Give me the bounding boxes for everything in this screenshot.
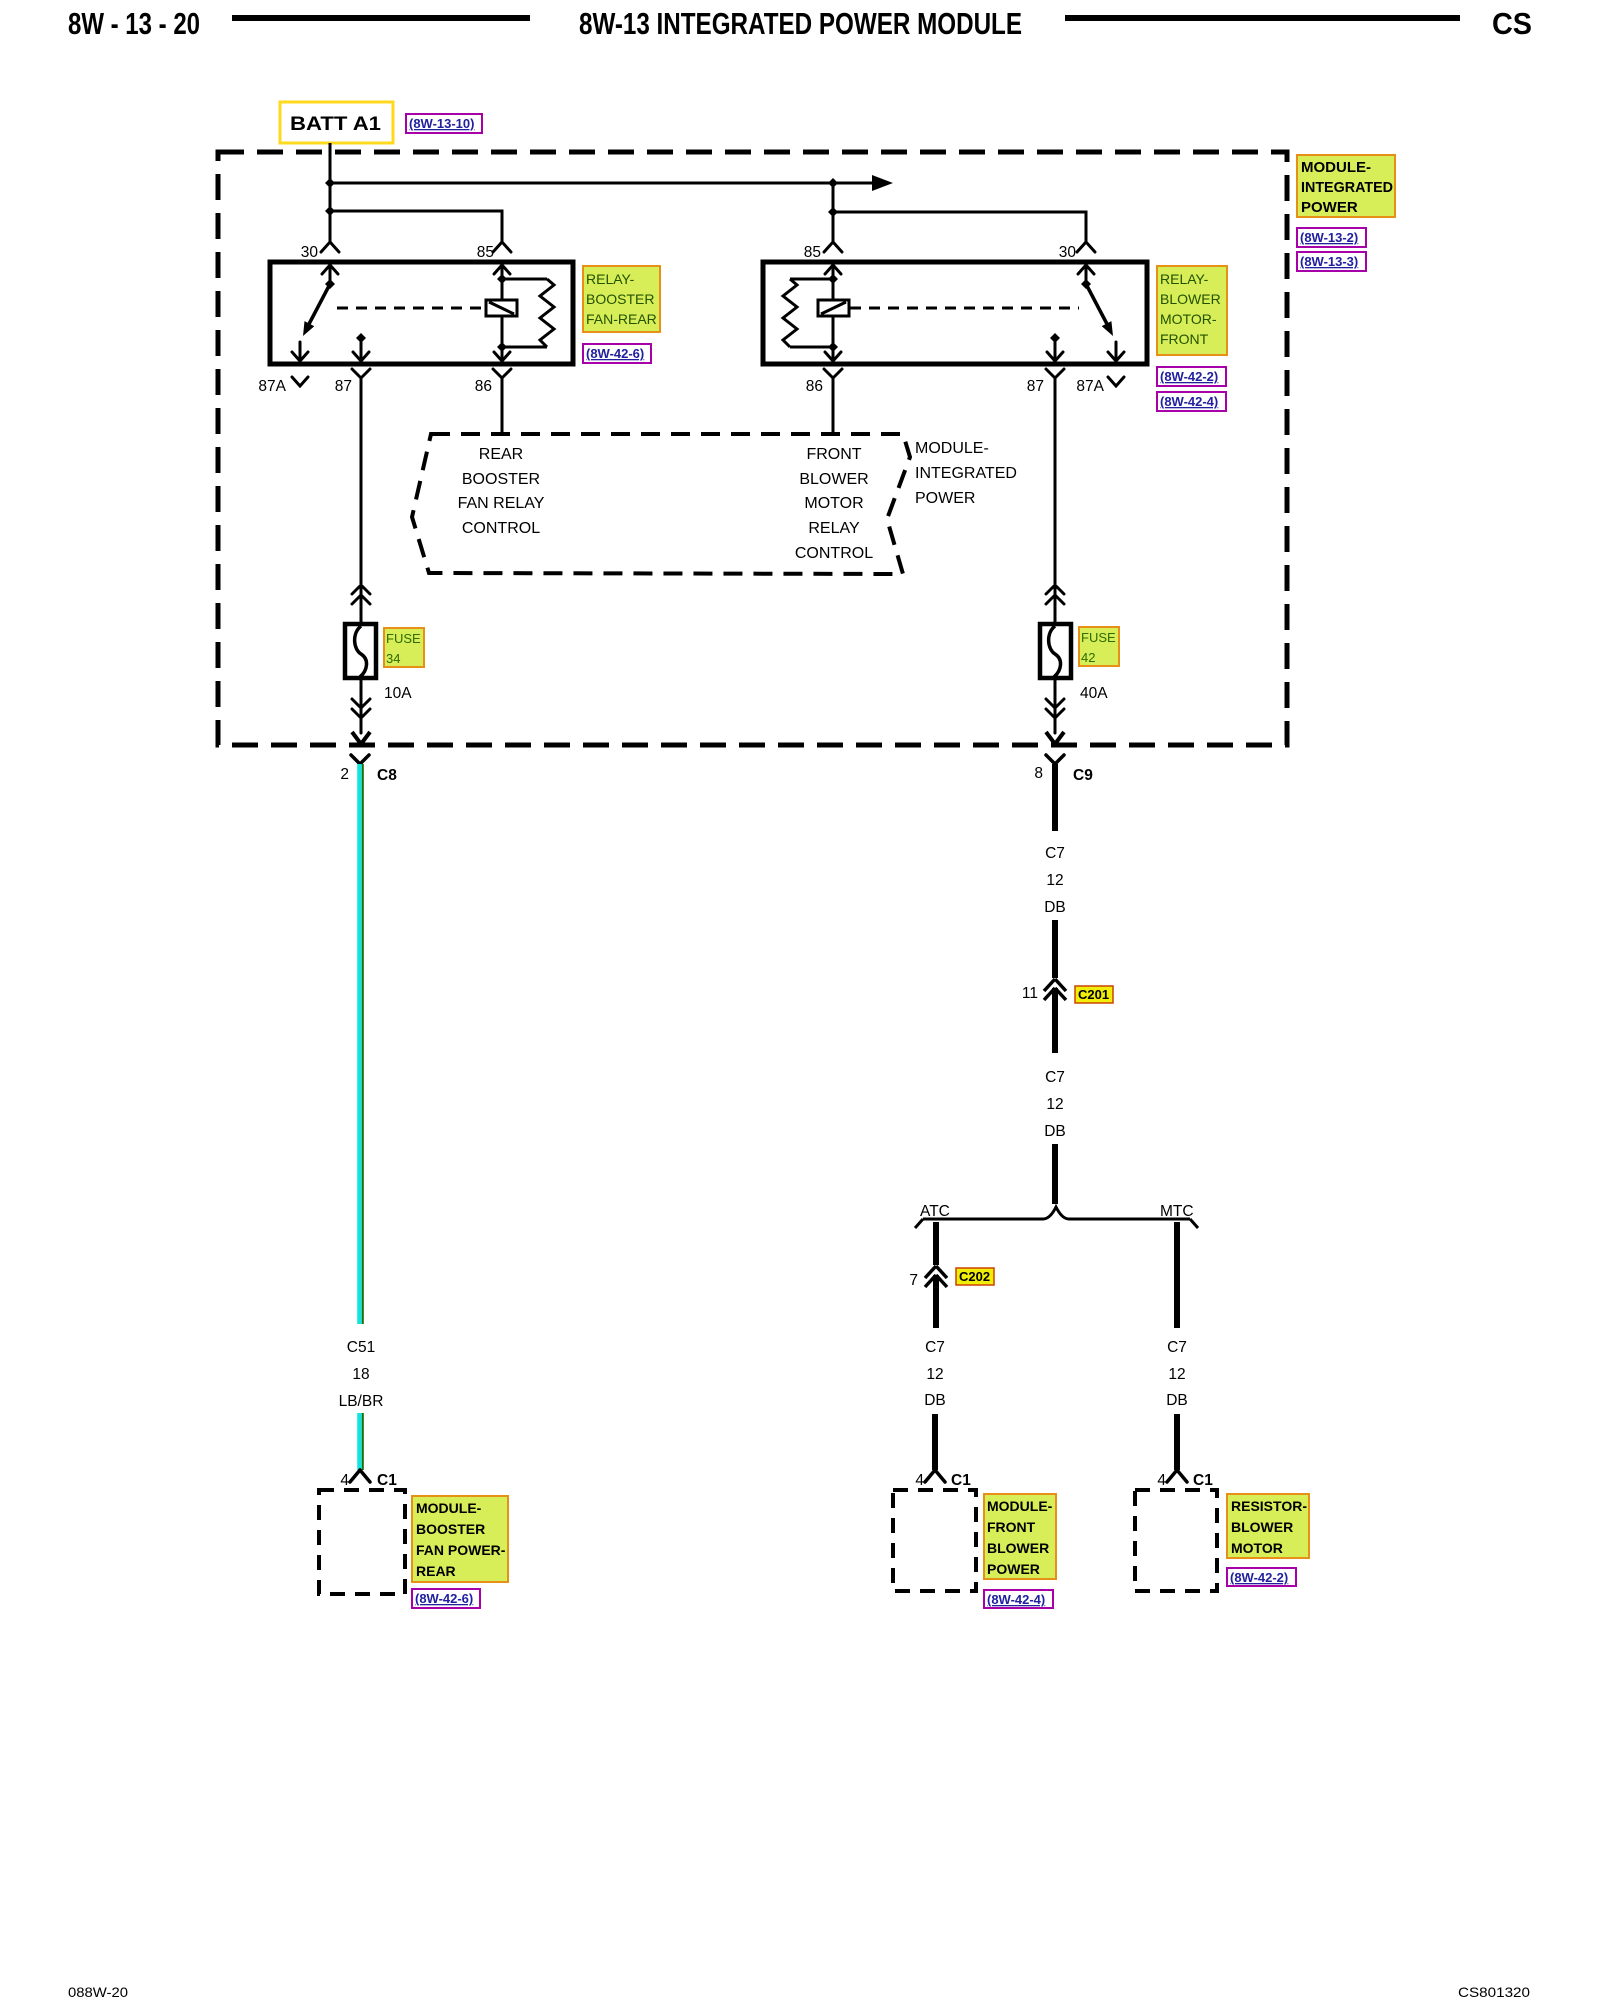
svg-text:4: 4 xyxy=(1157,1472,1166,1489)
wire fuse 34 to boundary xyxy=(352,678,370,733)
svg-text:(8W-42-4): (8W-42-4) xyxy=(1160,394,1218,409)
svg-text:FAN POWER-: FAN POWER- xyxy=(416,1542,506,1558)
svg-text:C8: C8 xyxy=(377,767,397,784)
svg-text:7: 7 xyxy=(909,1272,918,1289)
fuse F42 xyxy=(1040,624,1071,678)
svg-text:42: 42 xyxy=(1081,650,1095,665)
connector C1 right xyxy=(1167,1470,1187,1482)
svg-text:C51: C51 xyxy=(347,1339,375,1356)
svg-text:C1: C1 xyxy=(377,1472,397,1489)
svg-text:86: 86 xyxy=(806,378,823,395)
svg-text:(8W-13-10): (8W-13-10) xyxy=(409,116,474,131)
svg-text:(8W-13-2): (8W-13-2) xyxy=(1300,230,1358,245)
svg-text:12: 12 xyxy=(1168,1366,1185,1383)
svg-text:30: 30 xyxy=(301,244,319,261)
svg-text:MODULE-: MODULE- xyxy=(1301,159,1371,176)
svg-text:BOOSTER: BOOSTER xyxy=(416,1521,485,1537)
svg-text:DB: DB xyxy=(1044,1123,1066,1140)
connector chevrons above fuse 34 xyxy=(352,585,370,624)
svg-text:(8W-13-3): (8W-13-3) xyxy=(1300,254,1358,269)
svg-text:8: 8 xyxy=(1034,765,1043,782)
relay coil junction dot top xyxy=(497,274,507,284)
svg-text:4: 4 xyxy=(915,1472,924,1489)
svg-text:CONTROL: CONTROL xyxy=(462,520,540,537)
connector C202 xyxy=(925,1266,947,1287)
module front blower power dashed box xyxy=(893,1490,976,1591)
relay K1 RELAY-BOOSTER FAN-REAR box xyxy=(270,262,573,364)
connector C1 middle xyxy=(925,1470,945,1482)
svg-text:RELAY-: RELAY- xyxy=(1160,271,1209,287)
svg-text:10A: 10A xyxy=(384,685,412,702)
wire C51 18 LB/BR cyan xyxy=(357,764,362,1324)
MTC branch wire xyxy=(1174,1222,1180,1328)
svg-text:87A: 87A xyxy=(1076,378,1104,395)
coil junction dot top xyxy=(828,274,838,284)
wire xyxy=(933,1275,939,1328)
pin 87 contact dot xyxy=(1050,333,1060,343)
label MODULE-FRONT BLOWER POWER xyxy=(984,1494,1056,1579)
wire xyxy=(1052,1144,1058,1204)
svg-text:FAN-REAR: FAN-REAR xyxy=(586,311,657,327)
link 8W-13-3 xyxy=(1297,252,1366,271)
mechanical link dashed xyxy=(337,307,486,310)
junction dot xyxy=(325,178,335,188)
svg-text:(8W-42-6): (8W-42-6) xyxy=(586,346,644,361)
pin 87A stub xyxy=(1108,342,1124,361)
link 8W-42-4 xyxy=(1157,392,1226,411)
connector C1 left xyxy=(350,1470,370,1482)
relay coil box xyxy=(486,300,517,316)
label MODULE-BOOSTER FAN POWER-REAR xyxy=(412,1496,508,1582)
switch pivot dot xyxy=(1081,279,1091,289)
label FUSE 34 xyxy=(384,628,424,667)
svg-text:85: 85 xyxy=(477,244,494,261)
label RELAY-BLOWER MOTOR-FRONT xyxy=(1157,266,1227,355)
junction dot xyxy=(828,207,838,217)
wire cyan lower xyxy=(357,1413,362,1470)
link 8W-42-6 bottom xyxy=(412,1589,480,1608)
svg-text:8W-13 INTEGRATED POWER MODULE: 8W-13 INTEGRATED POWER MODULE xyxy=(579,6,1022,41)
svg-text:FRONT: FRONT xyxy=(987,1519,1036,1535)
pin 30 terminal xyxy=(1077,242,1095,284)
svg-text:18: 18 xyxy=(352,1366,369,1383)
svg-text:MODULE-: MODULE- xyxy=(987,1498,1053,1514)
svg-text:LB/BR: LB/BR xyxy=(339,1393,384,1410)
svg-text:MTC: MTC xyxy=(1160,1203,1194,1220)
wire xyxy=(1052,920,1058,978)
svg-text:C7: C7 xyxy=(1045,845,1065,862)
svg-text:RELAY: RELAY xyxy=(808,520,860,537)
switch pivot dot xyxy=(325,279,335,289)
wire to left relay coil pin 85 xyxy=(330,211,502,242)
svg-text:BATT A1: BATT A1 xyxy=(290,113,381,135)
svg-text:FAN RELAY: FAN RELAY xyxy=(458,495,545,512)
pin 85 terminal xyxy=(824,242,842,300)
wire xyxy=(932,1414,938,1470)
svg-text:(8W-42-2): (8W-42-2) xyxy=(1230,1570,1288,1585)
arrowhead continuation xyxy=(872,175,893,191)
link 8W-42-2 bottom xyxy=(1227,1568,1296,1586)
battery feed BATT A1 xyxy=(280,102,393,143)
wire fuse 42 to boundary xyxy=(1046,678,1064,733)
svg-text:87: 87 xyxy=(335,378,352,395)
svg-text:MOTOR: MOTOR xyxy=(1231,1540,1283,1556)
coil junction dot bottom xyxy=(828,342,838,352)
svg-text:12: 12 xyxy=(1046,1096,1063,1113)
resistor blower motor dashed box xyxy=(1135,1490,1217,1591)
label MODULE-INTEGRATED POWER xyxy=(1297,155,1395,217)
svg-text:BOOSTER: BOOSTER xyxy=(586,291,654,307)
connector chevrons above fuse 42 xyxy=(1046,585,1064,624)
svg-text:088W-20: 088W-20 xyxy=(68,1984,128,2000)
coil suppression resistor xyxy=(502,279,554,347)
svg-text:MODULE-: MODULE- xyxy=(416,1500,482,1516)
link 8W-13-10 xyxy=(406,114,482,133)
relay K2 RELAY-BLOWER MOTOR-FRONT box xyxy=(763,262,1147,364)
relay coil junction dot bottom xyxy=(497,342,507,352)
coil suppression resistor xyxy=(783,279,833,347)
svg-text:CS801320: CS801320 xyxy=(1458,1984,1530,2000)
svg-text:FRONT: FRONT xyxy=(806,446,861,463)
svg-text:CONTROL: CONTROL xyxy=(795,545,873,562)
svg-text:11: 11 xyxy=(1022,985,1038,1002)
svg-text:8W - 13 - 20: 8W - 13 - 20 xyxy=(68,6,200,41)
pin 86 terminal xyxy=(493,316,511,433)
svg-text:(8W-42-2): (8W-42-2) xyxy=(1160,369,1218,384)
svg-text:RESISTOR-: RESISTOR- xyxy=(1231,1498,1307,1514)
relay coil box xyxy=(818,300,849,316)
wire xyxy=(1174,1414,1180,1470)
svg-text:REAR: REAR xyxy=(479,446,523,463)
wire from BATT A1 down xyxy=(329,143,332,242)
svg-text:C1: C1 xyxy=(951,1472,971,1489)
switch arm to 87A xyxy=(309,284,330,324)
connector C8 xyxy=(351,755,369,764)
svg-text:85: 85 xyxy=(804,244,821,261)
link 8W-42-2 xyxy=(1157,367,1226,386)
mechanical link dashed xyxy=(850,307,1079,310)
svg-text:C1: C1 xyxy=(1193,1472,1213,1489)
fuse F34 xyxy=(345,624,376,678)
header rule right xyxy=(1065,15,1460,21)
svg-text:FRONT: FRONT xyxy=(1160,331,1209,347)
wire xyxy=(1052,988,1058,1053)
wire pin 87 right down to fuse 42 xyxy=(1054,378,1057,584)
svg-text:DB: DB xyxy=(1166,1392,1188,1409)
svg-text:2: 2 xyxy=(340,766,349,783)
link 8W-42-4 bottom xyxy=(984,1590,1053,1608)
svg-text:87: 87 xyxy=(1027,378,1044,395)
svg-text:C7: C7 xyxy=(1045,1069,1065,1086)
splice split ATC MTC xyxy=(915,1207,1198,1228)
svg-text:INTEGRATED: INTEGRATED xyxy=(915,465,1017,482)
ATC branch wire xyxy=(933,1222,939,1265)
pin 30 terminal xyxy=(321,242,339,284)
node control region dashed outline xyxy=(412,434,910,574)
svg-text:MOTOR-: MOTOR- xyxy=(1160,311,1217,327)
svg-text:DB: DB xyxy=(1044,899,1066,916)
svg-text:C7: C7 xyxy=(1167,1339,1187,1356)
svg-text:REAR: REAR xyxy=(416,1563,456,1579)
svg-text:30: 30 xyxy=(1059,244,1077,261)
svg-text:BLOWER: BLOWER xyxy=(799,471,868,488)
node MODULE-INTEGRATED POWER text xyxy=(915,440,1017,507)
svg-text:C202: C202 xyxy=(959,1269,990,1284)
svg-text:RELAY-: RELAY- xyxy=(586,271,635,287)
wire DB thick below C9 xyxy=(1052,764,1058,831)
junction dot xyxy=(828,178,838,188)
svg-text:FUSE: FUSE xyxy=(1081,630,1116,645)
connector C201 xyxy=(1044,979,1066,1000)
pin 87 terminal xyxy=(352,338,370,378)
svg-text:C201: C201 xyxy=(1078,987,1109,1002)
label FUSE 42 xyxy=(1079,627,1119,666)
link 8W-13-2 xyxy=(1297,228,1366,247)
module booster fan power rear dashed box xyxy=(319,1490,405,1594)
svg-text:DB: DB xyxy=(924,1392,946,1409)
svg-text:87A: 87A xyxy=(258,378,286,395)
switch arm to 87A xyxy=(1086,284,1107,324)
header rule left xyxy=(232,15,530,21)
svg-text:34: 34 xyxy=(386,651,400,666)
wire bus to right with arrow xyxy=(330,182,874,185)
svg-text:86: 86 xyxy=(475,378,492,395)
pin 87 terminal xyxy=(1046,338,1064,378)
svg-text:4: 4 xyxy=(340,1472,349,1489)
svg-text:C7: C7 xyxy=(925,1339,945,1356)
label RELAY-BOOSTER FAN-REAR xyxy=(583,266,660,332)
pin 87 contact dot xyxy=(356,333,366,343)
svg-text:INTEGRATED: INTEGRATED xyxy=(1301,179,1393,196)
link 8W-42-6 xyxy=(583,344,651,363)
arrow into boundary xyxy=(352,732,370,744)
svg-text:POWER: POWER xyxy=(987,1561,1040,1577)
svg-text:C9: C9 xyxy=(1073,767,1093,784)
svg-text:MOTOR: MOTOR xyxy=(804,495,863,512)
svg-text:POWER: POWER xyxy=(915,490,975,507)
svg-text:(8W-42-4): (8W-42-4) xyxy=(987,1592,1045,1607)
svg-text:MODULE-: MODULE- xyxy=(915,440,989,457)
wire to right relay pin 30 xyxy=(833,212,1086,242)
svg-text:BOOSTER: BOOSTER xyxy=(462,471,540,488)
wire pin 87 left down to fuse xyxy=(360,378,363,584)
pin 86 terminal xyxy=(824,316,842,433)
svg-text:CS: CS xyxy=(1492,6,1532,41)
label RESISTOR-BLOWER MOTOR xyxy=(1227,1494,1309,1558)
svg-text:12: 12 xyxy=(1046,872,1063,889)
node REAR BOOSTER FAN RELAY CONTROL xyxy=(458,446,545,537)
junction dot xyxy=(325,206,335,216)
svg-text:12: 12 xyxy=(926,1366,943,1383)
pin 87A stub xyxy=(292,342,308,361)
svg-text:BLOWER: BLOWER xyxy=(1231,1519,1293,1535)
wire down to right relay pin 85 xyxy=(832,183,835,242)
connector C9 xyxy=(1046,755,1064,764)
module integrated power dashed boundary xyxy=(218,152,1287,745)
svg-text:ATC: ATC xyxy=(920,1203,950,1220)
svg-text:BLOWER: BLOWER xyxy=(987,1540,1049,1556)
pin 87A empty terminal xyxy=(292,377,308,386)
pin 87A empty terminal xyxy=(1108,377,1124,386)
svg-text:FUSE: FUSE xyxy=(386,631,421,646)
arrow into boundary xyxy=(1046,732,1064,744)
svg-text:40A: 40A xyxy=(1080,685,1108,702)
svg-text:BLOWER: BLOWER xyxy=(1160,291,1221,307)
svg-text:(8W-42-6): (8W-42-6) xyxy=(415,1591,473,1606)
pin 85 terminal xyxy=(493,242,511,300)
node FRONT BLOWER MOTOR RELAY CONTROL xyxy=(795,446,873,562)
svg-text:POWER: POWER xyxy=(1301,199,1358,216)
